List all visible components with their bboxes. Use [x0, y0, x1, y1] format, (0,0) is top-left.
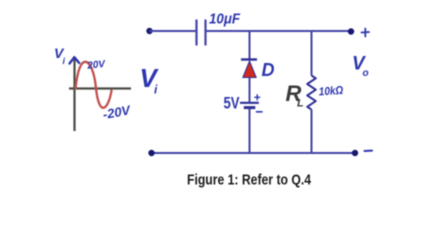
- battery minus sign: [257, 111, 263, 113]
- svg-text:5V: 5V: [224, 95, 240, 113]
- svg-text:i: i: [63, 56, 66, 66]
- svg-text:i: i: [154, 83, 158, 97]
- resistor RL zigzag: [307, 76, 316, 110]
- node bottom-right: [352, 150, 358, 156]
- output terminal minus sign: [365, 150, 373, 152]
- waveform label -20V: [102, 102, 133, 122]
- waveform label 20V: [86, 59, 107, 72]
- wire resistor branch top: [311, 31, 313, 76]
- node top-right: [348, 28, 354, 34]
- waveform Vi axis vertical: [73, 59, 75, 131]
- wire bottom: [152, 152, 356, 154]
- svg-text:D: D: [262, 60, 275, 80]
- waveform Vi axis horizontal: [69, 87, 131, 89]
- waveform axis arrowhead: [70, 57, 80, 63]
- input label Vi: [140, 63, 160, 97]
- wire diode to battery: [249, 78, 251, 102]
- diode D triangle: [243, 61, 256, 78]
- battery plus sign: [255, 95, 260, 100]
- capacitor C1 left plate: [195, 20, 197, 46]
- battery 5V short plate: [244, 106, 256, 109]
- battery value label 5V: [224, 95, 240, 113]
- svg-text:20V: 20V: [86, 59, 107, 72]
- wire battery to bottom: [249, 109, 251, 153]
- resistor label RL: [286, 81, 305, 110]
- output label Vo: [352, 54, 369, 80]
- wire top right segment: [206, 30, 352, 32]
- resistor value label 10kΩ: [318, 85, 343, 99]
- svg-text:Figure 1: Refer to Q.4: Figure 1: Refer to Q.4: [187, 172, 312, 189]
- svg-text:L: L: [297, 98, 304, 110]
- node top-left: [146, 28, 152, 34]
- diode D cathode bar: [241, 58, 257, 60]
- output terminal plus sign: [362, 29, 370, 37]
- capacitor value label 10uF: [209, 11, 241, 28]
- caption Figure 1: Refer to Q.4: [187, 172, 312, 189]
- svg-text:10μF: 10μF: [209, 11, 241, 28]
- svg-text:o: o: [363, 68, 369, 79]
- wire resistor to bottom: [311, 110, 313, 154]
- wire top left segment: [150, 30, 197, 32]
- node bottom-left: [148, 150, 154, 156]
- svg-text:10kΩ: 10kΩ: [318, 85, 343, 99]
- capacitor C1 right plate: [204, 20, 206, 46]
- waveform sine wave: [76, 62, 112, 108]
- diode label D: [262, 60, 275, 80]
- wire diode branch top: [249, 31, 251, 60]
- battery 5V long plate: [240, 102, 259, 104]
- waveform axis label Vi: [54, 45, 66, 66]
